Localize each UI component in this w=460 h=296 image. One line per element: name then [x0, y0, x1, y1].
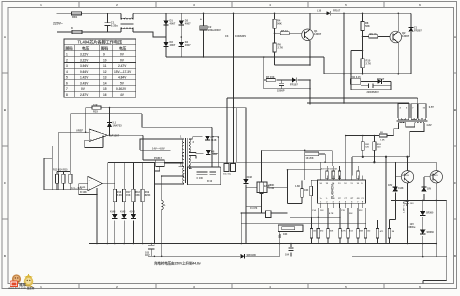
node r20	[304, 150, 306, 152]
resistor R4	[273, 19, 276, 28]
svg-text:FR107: FR107	[290, 83, 298, 87]
svg-text:15K: 15K	[126, 194, 131, 197]
IC top pin stubs	[321, 176, 363, 181]
wire bridge left vertical	[165, 13, 167, 52]
zener Z4	[421, 187, 426, 191]
wire pin jog rail 1	[290, 216, 340, 218]
svg-text:Ct 473: Ct 473	[250, 207, 258, 210]
svg-text:18V: 18V	[388, 184, 393, 187]
wire opamp2 output	[102, 183, 114, 185]
wire Q4 emitter	[435, 183, 437, 200]
node Q2 base	[362, 36, 364, 38]
wire opto box top	[140, 149, 170, 151]
svg-text:UREF: UREF	[76, 129, 83, 133]
diode D4	[179, 42, 184, 46]
svg-text:820K: 820K	[145, 194, 151, 197]
svg-text:15K: 15K	[135, 194, 140, 197]
node bus joins	[96, 243, 98, 245]
resistor R22	[301, 189, 304, 198]
resistor cluster R13 R14 R15	[57, 172, 70, 190]
svg-text:10K: 10K	[304, 189, 309, 192]
zener Z2	[107, 123, 112, 127]
wire feedback box2	[79, 184, 97, 195]
svg-text:220u/400V: 220u/400V	[208, 28, 221, 32]
svg-text:L10: L10	[317, 10, 322, 13]
wire col x52.3	[51, 146, 53, 190]
resistor Rb4	[339, 229, 342, 239]
sense resistor box R11	[350, 79, 360, 85]
capacitor box CB1	[224, 164, 229, 172]
wire feedback left drop	[85, 108, 87, 133]
resistor Rb7	[364, 229, 367, 239]
wire x407.5 down	[407, 200, 409, 243]
wire opto pins	[143, 160, 183, 171]
svg-text:2.7K: 2.7K	[366, 61, 372, 65]
svg-text:1N4733: 1N4733	[113, 123, 123, 127]
svg-text:+: +	[90, 138, 92, 142]
wire x386 column	[385, 157, 387, 244]
svg-text:4148: 4148	[211, 152, 217, 156]
wire base branch	[275, 32, 302, 34]
wire x154.4 down	[153, 163, 155, 244]
svg-text:3.43V: 3.43V	[80, 81, 89, 85]
zener diode Z1	[408, 27, 413, 31]
svg-text:C3: C3	[225, 34, 229, 38]
op-amp U2 triangle	[89, 129, 108, 142]
left zone ticks	[2, 73, 8, 219]
wire T1 primary top pin	[170, 139, 183, 150]
svg-text:3DD15: 3DD15	[402, 175, 410, 177]
svg-text:10K: 10K	[283, 233, 288, 236]
wire zener3 down	[394, 194, 396, 201]
wire rail A y98	[227, 97, 418, 99]
svg-text:1K 20K: 1K 20K	[306, 157, 314, 160]
wire x245.9 long column	[245, 108, 247, 244]
wire zener4 down	[423, 194, 424, 211]
wire col x377.5	[377, 220, 379, 244]
wire Q1 emitter	[309, 41, 311, 66]
wire col x133.4	[132, 163, 134, 244]
svg-text:FR207: FR207	[414, 28, 422, 32]
small resistor a1	[326, 171, 329, 179]
svg-text:8: 8	[66, 93, 68, 97]
resistor R14	[62, 174, 65, 183]
svg-text:472 103 511 121: 472 103 511 121	[321, 167, 338, 170]
wire input rail	[44, 189, 88, 191]
resistor R6	[273, 43, 276, 52]
svg-text:电压: 电压	[119, 46, 127, 51]
svg-text:3.22V: 3.22V	[80, 58, 89, 62]
logo mascot 2	[24, 274, 32, 282]
svg-text:0.33u: 0.33u	[111, 24, 118, 28]
svg-text:9: 9	[103, 53, 105, 57]
resistor R21	[310, 186, 313, 195]
svg-text:3DD15: 3DD15	[431, 175, 439, 177]
svg-text:4007: 4007	[185, 21, 191, 25]
wire secondary lower pins	[189, 156, 196, 169]
svg-text:4148: 4148	[211, 138, 217, 142]
wire rail B y104.5	[307, 102, 409, 104]
resistor Rb2	[317, 229, 320, 239]
diode D15	[420, 230, 425, 234]
svg-text:12: 12	[103, 70, 107, 74]
svg-text:脚码: 脚码	[100, 46, 109, 51]
diode D12	[240, 254, 244, 259]
wire output	[108, 135, 143, 160]
wire box top left	[70, 114, 212, 167]
svg-text:R 10K: R 10K	[80, 191, 87, 194]
right of IC diode col	[389, 162, 395, 243]
capacitor C10	[405, 200, 409, 206]
resistor R24	[388, 229, 391, 239]
svg-text:4: 4	[66, 70, 68, 74]
svg-text:1.5R—1.3R: 1.5R—1.3R	[404, 201, 406, 213]
electrolytic capacitor C2	[200, 13, 221, 58]
T1 core	[186, 138, 188, 183]
svg-text:10K: 10K	[330, 231, 334, 233]
svg-text:4148: 4148	[130, 211, 136, 214]
wire Q4 emitter down	[435, 200, 437, 256]
wire x287.5 links	[288, 169, 321, 171]
resistor Rb5	[347, 229, 350, 239]
svg-text:电压: 电压	[82, 46, 90, 51]
wire x226.9 railA corner down	[226, 98, 228, 164]
wire y206 link	[246, 205, 262, 207]
svg-text:4148: 4148	[110, 211, 116, 214]
diode D6	[377, 79, 381, 84]
svg-text:4.7K: 4.7K	[341, 230, 346, 233]
resistor R28	[361, 142, 364, 151]
svg-text:K: K	[71, 26, 73, 30]
right zone ticks	[454, 73, 457, 219]
wire top DC rail	[166, 12, 411, 14]
wire cap 104 drop	[150, 244, 152, 257]
svg-text:4007: 4007	[185, 43, 191, 47]
svg-text:13007: 13007	[402, 34, 410, 38]
wire left col x70.3	[69, 114, 71, 172]
svg-text:10: 10	[103, 58, 107, 62]
svg-text:3.94V: 3.94V	[80, 64, 89, 68]
T1 secondary winding	[189, 139, 190, 152]
wire r col x261.5	[261, 162, 263, 213]
svg-text:15V—17.3V: 15V—17.3V	[114, 70, 132, 74]
switch K	[72, 30, 82, 33]
svg-text:0.5W: 0.5W	[269, 187, 275, 190]
diode D5	[292, 78, 296, 83]
potentiometer box	[278, 225, 303, 257]
wire Q3 base left	[395, 177, 401, 187]
svg-text:0.302V: 0.302V	[116, 87, 127, 91]
T2 winding box 2	[411, 104, 417, 119]
svg-text:R33: R33	[93, 110, 98, 114]
svg-text:56K: 56K	[277, 21, 282, 25]
wire choke to bridge top	[133, 12, 166, 14]
T2 lower winding outline	[394, 123, 399, 135]
svg-text:18V: 18V	[427, 188, 432, 191]
wire snubber loop left	[263, 57, 265, 89]
svg-text:4.8V: 4.8V	[426, 123, 432, 127]
inductor L2	[162, 176, 164, 256]
wire base branch right	[363, 35, 391, 37]
svg-text:充电时电压由150V上升到44.6v: 充电时电压由150V上升到44.6v	[154, 260, 201, 265]
wire opamp2 up	[96, 147, 98, 178]
wire Q1 collector	[309, 13, 311, 29]
wire snubber2 loop	[351, 81, 391, 89]
node Q1 base junction	[274, 33, 276, 35]
node snubber	[309, 79, 311, 81]
wire drive R col A	[362, 136, 364, 157]
wire zener column	[410, 13, 412, 74]
svg-text:+: +	[200, 17, 202, 21]
svg-text:4148: 4148	[398, 187, 404, 190]
wire drive R col B	[373, 136, 375, 163]
svg-text:SR360: SR360	[426, 212, 434, 215]
resistor Rb6	[357, 229, 360, 239]
wire r22	[288, 181, 303, 204]
small zigzag resistor	[279, 234, 281, 238]
diode D2	[179, 21, 184, 25]
resistor R15	[69, 174, 72, 183]
small resistor a3	[338, 171, 341, 179]
wire vcc rail y135.5	[346, 135, 394, 137]
transistor Q4	[430, 171, 442, 183]
wire horiz r20 rail	[262, 150, 333, 166]
svg-text:PC817: PC817	[154, 156, 162, 160]
wire cols top joint	[44, 157, 52, 159]
diode D7	[205, 136, 210, 140]
svg-text:4148: 4148	[247, 176, 253, 179]
transistor Q2	[390, 31, 402, 43]
wire secondary diodes join	[187, 137, 220, 185]
wire x304.7 down	[304, 150, 306, 180]
node jog joints	[318, 217, 319, 218]
svg-text:0.5T: 0.5T	[429, 105, 435, 109]
node feeds	[233, 13, 235, 15]
components below IC	[241, 208, 366, 244]
svg-text:14V—4.8V: 14V—4.8V	[152, 146, 165, 150]
svg-text:6800u: 6800u	[409, 226, 416, 229]
svg-text:2: 2	[66, 58, 68, 62]
zener Z3	[393, 187, 398, 191]
svg-text:30K: 30K	[359, 231, 363, 233]
svg-text:4007: 4007	[170, 43, 176, 47]
wire opamp1 top feedback	[86, 107, 110, 109]
svg-text:14: 14	[103, 81, 107, 85]
svg-text:2.87V: 2.87V	[80, 93, 89, 97]
wire rail C y107.6	[110, 107, 246, 109]
wire long rail y162.2	[154, 161, 436, 163]
wire x236.7 stub	[236, 108, 238, 163]
wire zener drop	[109, 108, 111, 136]
wire sense resistor column	[362, 51, 364, 74]
svg-text:10K: 10K	[93, 103, 98, 107]
wire feedback box	[85, 135, 103, 147]
svg-text:TL494芯片各脚工作电压: TL494芯片各脚工作电压	[78, 39, 123, 45]
diode D3	[163, 42, 168, 46]
wire x389.4 resistor col	[389, 220, 395, 244]
svg-text:220V~: 220V~	[53, 22, 63, 26]
wire pin jog rail 2	[241, 223, 366, 225]
wire filter box	[187, 167, 220, 185]
wire left col x311	[311, 180, 317, 217]
small resistor a4	[357, 171, 360, 179]
svg-text:1.2K: 1.2K	[380, 139, 385, 141]
svg-text:15: 15	[103, 87, 107, 91]
svg-text:R 10: R 10	[207, 180, 213, 183]
diode D11	[131, 214, 136, 218]
resistor R25	[376, 229, 379, 239]
common mode choke L1	[121, 13, 134, 32]
svg-text:103/630V: 103/630V	[235, 34, 246, 38]
wire Q2 collector	[397, 13, 399, 31]
svg-text:3: 3	[66, 64, 68, 68]
svg-text:1.42V: 1.42V	[80, 76, 89, 80]
wire x395.4	[394, 162, 396, 219]
wire bottom comp drops	[312, 208, 366, 244]
wire box contents	[197, 172, 217, 174]
resistor R13	[55, 174, 58, 183]
svg-text:16: 16	[103, 93, 107, 97]
resistor R16	[113, 189, 116, 201]
wire x287.5 col	[287, 170, 289, 204]
IC U1 box	[317, 180, 365, 203]
diode D16	[243, 179, 248, 183]
svg-text:3.22V: 3.22V	[80, 53, 89, 57]
wire pot drops	[279, 232, 281, 257]
wire Q3 emitter	[407, 183, 409, 200]
T1 secondary winding 2	[189, 156, 190, 169]
wire left col x44	[43, 158, 45, 190]
capacitor C5	[368, 83, 373, 88]
resistor R26	[260, 182, 263, 193]
table: TL494 pin voltages	[64, 39, 136, 97]
wire col x114.8	[113, 163, 116, 244]
wire bottom DC rail	[166, 56, 324, 58]
wire Q2 emitter	[397, 42, 399, 74]
T2 winding box 3	[418, 104, 426, 119]
svg-text:5: 5	[66, 76, 68, 80]
node vcc rail	[345, 135, 347, 137]
T1 primary winding upper	[182, 139, 184, 166]
resistor R18	[132, 189, 135, 201]
svg-text:C1: C1	[361, 198, 363, 200]
svg-text:11: 11	[103, 64, 107, 68]
capacitor C7	[288, 247, 293, 252]
table title text	[78, 39, 123, 45]
logo mascot 1	[12, 274, 21, 283]
wire primary bottom pin	[154, 167, 183, 184]
wire vertical feed x233.5	[233, 13, 235, 107]
svg-text:SR3100: SR3100	[247, 253, 257, 257]
svg-text:RD1: RD1	[72, 15, 78, 19]
svg-text:5R: 5R	[380, 132, 383, 134]
wire col x142.7	[142, 163, 144, 244]
wire railB drop into transformer	[408, 102, 410, 105]
wire rail B feed	[310, 13, 344, 103]
resistor R12	[92, 106, 101, 109]
wire top rail y162.5	[108, 162, 154, 164]
transistor Q3	[401, 171, 413, 183]
logo red square	[10, 281, 18, 288]
svg-text:-: -	[90, 131, 91, 135]
svg-text:4148: 4148	[120, 211, 126, 214]
wire railA drop into transformer	[417, 98, 419, 104]
diode D8	[206, 150, 211, 154]
wire drive B drop	[435, 162, 437, 170]
svg-text:R9 10: R9 10	[370, 32, 377, 36]
IC pin numbers top	[319, 182, 364, 203]
wire R8 column	[362, 13, 364, 50]
wire snubber bottom	[264, 80, 310, 104]
svg-text:FR107: FR107	[333, 10, 341, 13]
wire R4 column	[275, 13, 311, 65]
table header text	[65, 46, 127, 51]
wire AC live top	[57, 12, 122, 14]
diode D17 on rail	[326, 11, 330, 15]
wire bridge mid tap left	[166, 36, 181, 38]
wire secondary d2	[189, 151, 203, 154]
wire left col x58.7 down	[58, 132, 60, 190]
resistor Rb1	[310, 229, 313, 239]
wire emitter rail right	[345, 73, 411, 75]
wire branch to sense	[351, 51, 363, 90]
svg-text:13: 13	[103, 76, 107, 80]
diode D9	[112, 214, 117, 218]
wire AC neutral bottom	[57, 31, 121, 33]
op-amp U4 triangle	[88, 176, 103, 190]
diode D10	[122, 214, 127, 218]
wire bridge AC mid jog	[153, 36, 166, 38]
wire lower return	[148, 200, 447, 283]
diode D14	[420, 211, 425, 215]
wire secondary top pin	[189, 137, 203, 139]
resistor R10	[361, 59, 364, 68]
svg-text:4007: 4007	[170, 21, 176, 25]
svg-text:R7 150: R7 150	[266, 75, 275, 79]
top zone ticks	[79, 2, 384, 8]
capacitor C4	[279, 80, 284, 89]
IC bottom pin stubs	[321, 203, 363, 208]
wire main ground bus	[89, 243, 436, 245]
svg-text:R11 0.15: R11 0.15	[351, 76, 361, 79]
wire enclosure	[106, 163, 108, 244]
resistor R29	[373, 142, 376, 151]
wire T2 center tap down	[409, 132, 411, 157]
wire top comp rail	[321, 136, 358, 181]
optocoupler U3 box	[156, 160, 164, 167]
svg-text:1.6K: 1.6K	[295, 185, 300, 188]
wire diode col	[422, 217, 424, 256]
resistor R17	[123, 189, 126, 201]
wire sense to diode	[361, 80, 391, 82]
svg-text:1KV: 1KV	[145, 254, 150, 257]
svg-text:2.7K: 2.7K	[278, 45, 284, 49]
labels below IC	[313, 230, 371, 233]
diode D13	[393, 186, 398, 190]
svg-text:13007: 13007	[314, 32, 322, 36]
svg-text:R13 R14 R15: R13 R14 R15	[53, 169, 68, 172]
wire Q4 base left	[424, 177, 430, 187]
svg-text:4.7K: 4.7K	[329, 212, 334, 215]
components above IC	[262, 136, 360, 181]
wire primary top to box	[140, 139, 184, 150]
T2 core lines	[397, 120, 428, 121]
wire x233 feed down	[233, 108, 235, 164]
wire drive lines to output	[346, 134, 410, 244]
svg-text:1: 1	[66, 53, 68, 57]
wire cluster top rail	[57, 171, 70, 173]
svg-text:2.47V: 2.47V	[118, 64, 127, 68]
